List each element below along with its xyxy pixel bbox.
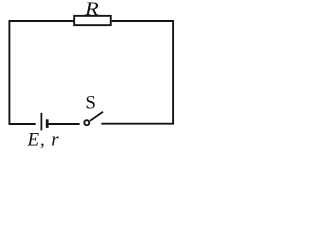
- wire bottom-left segment: [9, 123, 36, 125]
- svg-text:E, r: E, r: [27, 130, 60, 151]
- wire bottom-right segment: [101, 123, 174, 125]
- wire top-right segment: [112, 20, 174, 22]
- wire top-left segment: [9, 20, 74, 22]
- label R: [84, 0, 99, 20]
- wire left vertical: [8, 21, 10, 124]
- wire right vertical: [172, 21, 174, 124]
- resistor R: [74, 16, 111, 25]
- switch S: [84, 112, 103, 125]
- wire battery to switch: [49, 123, 80, 125]
- svg-text:R: R: [84, 0, 99, 20]
- battery cell E,r: [41, 113, 47, 131]
- svg-text:S: S: [85, 92, 96, 113]
